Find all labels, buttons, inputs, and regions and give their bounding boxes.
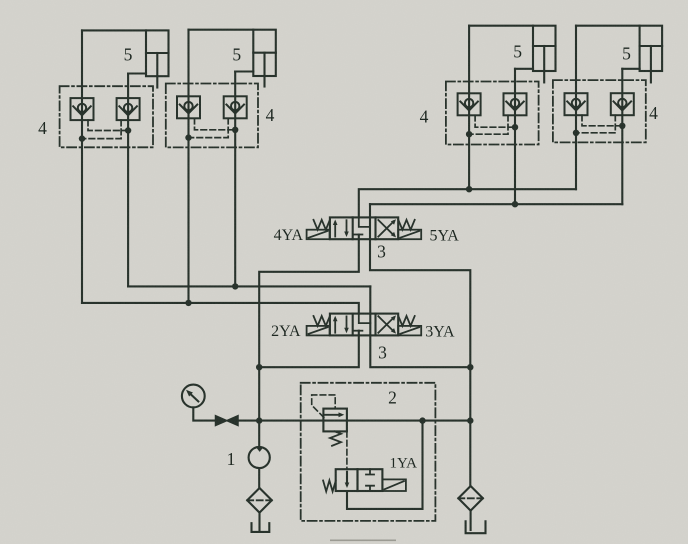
check valve block 4 (left block1) dash-dot enclosure [60, 86, 153, 147]
wire B-line upper valve to right blocks [370, 203, 622, 205]
wire pump to suction filter [258, 468, 260, 488]
wire 1YA outlet loop [347, 421, 423, 509]
directional valve 3 (upper, 4YA/5YA) body [330, 217, 398, 239]
return filter [458, 486, 483, 511]
upper valve right spring [398, 220, 414, 230]
wire left block2 left line (cyl2 to A-rail) [187, 30, 189, 303]
wire filter to tank [258, 513, 260, 531]
junction LB2 pilot on right line [232, 127, 238, 133]
unloading valve 1YA [336, 469, 383, 491]
junction A-line at RB1 [466, 186, 472, 192]
wire cyl4 rod-side port [576, 25, 640, 27]
pilot line LB2 right-to-left (dashed) [189, 118, 229, 137]
suction filter [247, 488, 272, 513]
wire cyl3 cap-side port [515, 68, 533, 70]
lower valve left solenoid [307, 326, 330, 336]
wire T lower valve to return [370, 286, 470, 367]
wire return filter to tank [470, 511, 472, 530]
tank (right) [466, 521, 486, 533]
cylinder 5 (second left) [253, 30, 275, 87]
tank (left) [252, 523, 270, 532]
wire cyl2 cap-side port [235, 70, 253, 72]
cylinder 5 (third, right group) [533, 26, 556, 83]
junction RB1 pilot on left line [466, 131, 472, 137]
1YA solenoid [382, 479, 406, 491]
pilot check valve (RB1 right) [504, 93, 527, 115]
wire right block1 left line (cyl3 down) [468, 26, 470, 190]
lower valve left position arrows [333, 316, 349, 334]
junction RB2 pilot on right line [619, 123, 625, 129]
paper grain [0, 0, 1, 1]
pilot line RB2 right-to-left (dashed) [576, 115, 615, 133]
junction pump tee [256, 417, 262, 423]
junction P rail / riser [256, 364, 262, 370]
junction A-line at LB2 [185, 300, 191, 306]
cylinder 5 (rightmost) [640, 26, 663, 83]
wire cyl3 rod-side port [469, 25, 533, 27]
upper valve left solenoid [307, 230, 330, 240]
wire cyl2 rod-side port [189, 29, 254, 31]
lower valve right spring [398, 316, 414, 326]
pilot check valve (RB2 right) [611, 93, 634, 115]
junction 1YA outlet on main line [419, 417, 425, 423]
lower valve centre position (Y-type) [354, 314, 370, 331]
junction RB2 pilot on left line [573, 130, 579, 136]
wire gauge to main line [193, 407, 215, 420]
pilot check valve (LB2 left) [177, 96, 200, 118]
junction B-line at LB2 [232, 283, 238, 289]
wire left block1 left line (cyl1 to A-rail) [81, 30, 83, 303]
lower valve right position crossed arrows [378, 315, 396, 333]
wire right block1 right line (cyl3 down) [514, 69, 516, 204]
pilot check valve (LB1 right) [117, 98, 140, 120]
relief valve [323, 409, 347, 446]
check valve block 4 (right block1) dash-dot enclosure [446, 82, 539, 145]
upper valve left spring [314, 220, 330, 230]
pressure gauge [182, 385, 205, 408]
wire right block2 left line (cyl4 down) [575, 26, 577, 190]
pilot line LB1 right-to-left (dashed) [82, 120, 121, 139]
upper valve right position crossed arrows [378, 219, 396, 237]
directional valve 3 (lower, 2YA/3YA) body [330, 314, 398, 336]
upper valve centre position (Y-type) [354, 217, 370, 234]
wire cyl4 cap-side port [622, 68, 639, 70]
wire left block2 right line (cyl2 to B-rail) [234, 72, 236, 287]
junction T rails [467, 364, 473, 370]
power unit block 2 dash-dot enclosure [301, 383, 436, 521]
junction LB1 pilot on left line [79, 135, 85, 141]
cylinder 5 (leftmost) [146, 30, 169, 87]
check valve block 4 (left block2) dash-dot enclosure [166, 84, 258, 148]
relief valve pilot sensing line (dashed) [312, 395, 336, 418]
pump 1 [249, 421, 270, 469]
relief valve vent line to 1YA valve (dashed) [346, 431, 348, 469]
wire left block1 right line (cyl1 to B-rail) [127, 74, 129, 287]
pilot check valve (LB2 right) [224, 96, 247, 118]
wire right block2 right line (cyl4 down) [621, 69, 623, 204]
pilot line RB1 right-to-left (dashed) [469, 115, 508, 134]
upper valve right solenoid [398, 230, 421, 240]
wire cyl1 rod-side port [82, 29, 146, 31]
wire T upper valve to return [370, 204, 470, 367]
pilot line RB2 left-to-right (dashed) [582, 115, 622, 126]
wire A-line upper valve to right blocks [359, 189, 576, 217]
junction RB1 pilot on right line [512, 124, 518, 130]
check valve block 4 (right block2) dash-dot enclosure [553, 80, 646, 142]
junction B-line at RB1 [512, 201, 518, 207]
pilot line LB1 left-to-right (dashed) [88, 120, 128, 130]
wire P rail to lower valve [259, 331, 359, 368]
pilot line LB2 left-to-right (dashed) [195, 118, 236, 130]
pilot line RB1 left-to-right (dashed) [475, 115, 515, 127]
pilot check valve (RB1 left) [458, 93, 481, 115]
pilot check valve (LB1 left) [71, 98, 94, 120]
wire B-line lower valve to left blocks [128, 285, 370, 287]
lower valve right solenoid [398, 326, 421, 336]
lower valve left spring [314, 316, 330, 326]
1YA spring [323, 481, 336, 492]
shut-off valve [216, 416, 239, 426]
pilot check valve (RB2 left) [565, 93, 588, 115]
wire return line to filter [469, 367, 471, 486]
wire cyl1 cap-side port [128, 72, 146, 74]
junction LB1 pilot on right line [125, 127, 131, 133]
wire P riser pump to upper valve [259, 235, 359, 421]
wire A-line lower valve to left blocks [82, 303, 359, 314]
wire main pressure line [238, 420, 470, 422]
upper valve left position arrows [333, 220, 349, 238]
scan artifact bottom [330, 540, 396, 542]
junction LB2 pilot on left line [185, 134, 191, 140]
junction return / relief outlet [467, 417, 473, 423]
